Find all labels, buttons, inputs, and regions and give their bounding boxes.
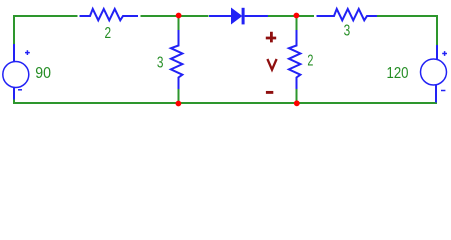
V2 minus polarity mark	[441, 90, 445, 92]
node C junction dot (bottom left)	[176, 101, 182, 107]
svg-text:2: 2	[307, 52, 313, 69]
V1 plus polarity mark	[25, 50, 30, 55]
resistor R1 body	[80, 9, 139, 20]
diode D1 cathode lead	[245, 15, 268, 17]
voltage annotation label V	[267, 59, 276, 70]
wire top between R1 and diode through node A	[141, 15, 209, 17]
wire bottom rail	[14, 99, 437, 104]
svg-text:3: 3	[344, 23, 351, 40]
svg-text:2: 2	[105, 25, 112, 42]
node D junction dot (bottom right)	[294, 100, 300, 106]
node B junction dot (top right)	[294, 13, 300, 19]
voltage source V2 bottom lead	[435, 85, 437, 103]
wire left rail top (from V1 up to top-left corner and right)	[14, 16, 78, 44]
voltage source V1 circle	[3, 62, 29, 88]
wire stub node B to R3 top	[296, 17, 298, 31]
node A junction dot (top left)	[176, 13, 182, 19]
voltage source V1 top lead	[13, 44, 15, 62]
V1 minus polarity mark	[18, 89, 22, 91]
plus sign of voltage annotation V	[266, 32, 276, 43]
resistor R4 body	[317, 9, 378, 20]
voltage source V2 top lead	[436, 45, 438, 60]
svg-text:90: 90	[35, 65, 51, 82]
svg-text:3: 3	[157, 55, 164, 72]
minus sign of voltage annotation V	[266, 91, 273, 94]
wire stub R3 bottom to bottom rail	[296, 89, 298, 103]
diode D1 cathode bar	[242, 8, 245, 25]
resistor R2 body (vertical, left)	[171, 30, 183, 89]
voltage source V2 circle	[421, 59, 447, 85]
wire top between diode and R4 through node B	[268, 15, 314, 17]
wire stub R2 bottom to bottom rail	[178, 89, 180, 103]
diode D1 anode lead	[209, 15, 232, 17]
wire stub node A to R2 top	[178, 17, 180, 31]
svg-text:120: 120	[387, 65, 409, 82]
diode D1 triangle	[232, 9, 242, 24]
resistor R3 body (vertical, right)	[289, 30, 301, 89]
V2 plus polarity mark	[442, 51, 447, 56]
voltage source V1 bottom lead	[13, 88, 15, 100]
wire top-right corner down to V2	[377, 16, 437, 45]
